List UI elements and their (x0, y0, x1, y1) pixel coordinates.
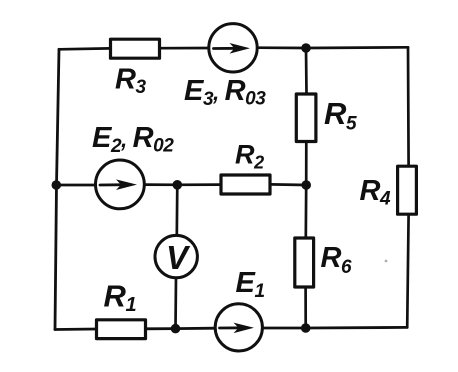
svg-text:R2: R2 (235, 140, 264, 173)
svg-text:E1: E1 (236, 267, 265, 302)
node dot bottom right (301, 323, 311, 333)
source E3,R03 (209, 24, 257, 72)
svg-text:V: V (166, 239, 191, 276)
resistor R4 (398, 166, 417, 214)
speck (385, 260, 388, 263)
node dot top middle (301, 43, 311, 53)
resistor R1 (97, 320, 146, 339)
node dot left middle (52, 180, 62, 190)
svg-text:R5: R5 (324, 96, 357, 135)
svg-text:R3: R3 (115, 64, 147, 99)
wire middle vertical branch (304, 48, 308, 328)
voltmeter V (155, 235, 197, 277)
svg-text:R4: R4 (360, 175, 392, 210)
wire left side (55, 49, 59, 329)
wire bottom side (55, 327, 407, 329)
resistor R5 (296, 94, 316, 142)
wire top side (59, 47, 408, 49)
wire voltmeter branch (176, 185, 178, 329)
svg-text:E3, R03: E3, R03 (184, 75, 266, 110)
resistor R3 (111, 39, 160, 58)
node dot middle right (301, 180, 311, 190)
wire middle horizontal branch (57, 183, 307, 186)
svg-text:R1: R1 (104, 279, 137, 317)
source E1 (215, 304, 262, 351)
node dot bottom voltmeter (171, 324, 181, 334)
svg-text:R6: R6 (321, 242, 353, 278)
source E2,R02 (96, 160, 145, 209)
resistor R2 (221, 175, 270, 194)
resistor R6 (295, 238, 314, 287)
node dot voltmeter top (173, 180, 183, 190)
svg-text:E2, R02: E2, R02 (92, 122, 174, 157)
wire right side (407, 47, 408, 327)
